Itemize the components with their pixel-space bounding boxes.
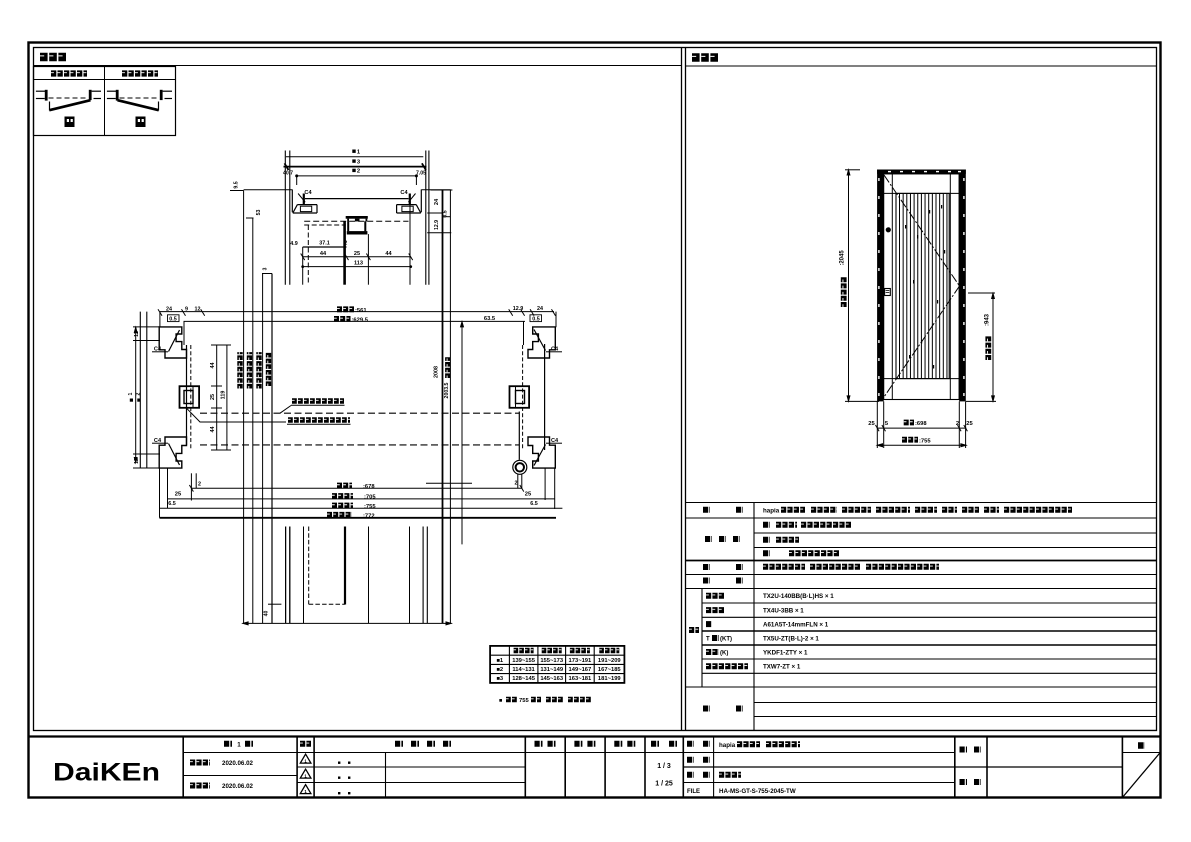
right jamb strike clip: [510, 386, 530, 408]
svg-text:TXW7-ZT × 1: TXW7-ZT × 1: [763, 664, 801, 671]
svg-text:181~199: 181~199: [598, 676, 622, 682]
left jamb strike clip: [180, 386, 200, 408]
hinge: [513, 460, 527, 474]
svg-text:DaiKEn: DaiKEn: [53, 758, 160, 785]
right wall lines of head section: [425, 151, 427, 285]
head frame right profile: [420, 190, 422, 213]
vertical dim 3: [262, 273, 272, 275]
elevation door frame right stile bar: [959, 170, 966, 402]
zumei label and sanmenzu: [687, 772, 694, 778]
wall lines left segment lower: [285, 527, 287, 624]
svg-text:40: 40: [264, 611, 270, 617]
svg-text:1 / 25: 1 / 25: [655, 781, 673, 788]
right header underline: [686, 65, 1157, 67]
svg-text:A61A5T-14mmFLN × 1: A61A5T-14mmFLN × 1: [763, 622, 829, 629]
svg-text:C4: C4: [551, 438, 559, 444]
left top hook hatch and C4: [169, 330, 180, 352]
rotated height labels: [237, 352, 242, 388]
svg-text:173~191: 173~191: [569, 658, 593, 664]
svg-text:114~131: 114~131: [512, 667, 535, 673]
revision rows lines: [297, 766, 525, 768]
chamfer leader C4 left: [298, 194, 305, 203]
row label chouban: [703, 578, 710, 584]
row label katashiki: [703, 507, 710, 513]
svg-text:2003.5: 2003.5: [444, 382, 450, 398]
no column header: [300, 741, 311, 747]
note todari zencho wo shimesu: [292, 398, 344, 404]
svg-text:2: 2: [344, 241, 347, 247]
sheet inner border: [34, 48, 1157, 731]
elevation door frame left stile bar: [877, 170, 884, 402]
elevation left dim okuchidaka 2045: [848, 170, 850, 402]
svg-text:44: 44: [210, 363, 216, 369]
svg-text:2: 2: [136, 392, 142, 395]
svg-text::943: :943: [984, 313, 990, 326]
dim line 2: [297, 175, 417, 177]
spec table column dividers: [753, 503, 755, 731]
extension stubs under dim lines: [159, 312, 161, 327]
title block top line: [29, 735, 1161, 737]
svg-text:24: 24: [537, 306, 543, 312]
hinge leader line: [426, 482, 472, 484]
left wall lines of head section: [284, 151, 286, 285]
elevation bottom extension lines: [876, 401, 878, 448]
svg-text:HA-MS-GT-S-755-2045-TW: HA-MS-GT-S-755-2045-TW: [719, 788, 796, 795]
door swing dash-dot diagonals: [884, 175, 960, 286]
right-hinged swing diagram: [36, 90, 47, 92]
dim 44 25 44 line: [303, 256, 411, 258]
shiage row1 content tobira panel: [763, 522, 770, 528]
page cell: [1138, 742, 1145, 749]
svg-text:113: 113: [354, 261, 363, 267]
daiken logo: [53, 758, 160, 785]
svg-text:(KT): (KT): [720, 636, 732, 642]
row label totte: [703, 564, 710, 570]
svg-text::755: :755: [919, 438, 931, 444]
door leaf dashed lines in plan: [200, 412, 519, 414]
hinban label: [687, 757, 694, 763]
elevation door leaf outline: [884, 174, 959, 400]
svg-text::2045: :2045: [840, 250, 846, 266]
hinban vertical label: [689, 627, 699, 633]
shukushaku header and values: [651, 741, 659, 747]
svg-text:■3: ■3: [496, 676, 504, 682]
left jamb inner face line: [186, 345, 188, 445]
door leaf stiles and rails: [891, 174, 893, 400]
bottom dim line wakugai 755: [877, 444, 966, 446]
extension arrow 63.5: [461, 322, 463, 544]
svg-text:■2: ■2: [496, 667, 503, 673]
vertical dim 9.5: [230, 190, 244, 192]
revision history sub divider: [385, 753, 387, 798]
shounin kenzu sakusei headers: [535, 741, 543, 747]
left bottom hook hatch and C4: [169, 444, 180, 466]
door knob: [886, 227, 891, 232]
right top hook hatch and C4: [534, 330, 546, 351]
floor section wall pair left: [285, 527, 287, 624]
svg-text:2020.06.02: 2020.06.02: [222, 760, 254, 767]
svg-text:C4: C4: [400, 190, 408, 196]
dim line wakuuchi 705: [168, 498, 555, 500]
svg-text:53: 53: [256, 210, 262, 216]
dim line tobira 678: [191, 487, 521, 489]
svg-text:63.5: 63.5: [484, 316, 496, 322]
svg-text::678: :678: [363, 484, 375, 490]
svg-text:7.05: 7.05: [416, 171, 426, 177]
page diagonal: [1123, 753, 1160, 797]
svg-text:155~173: 155~173: [540, 658, 564, 664]
svg-text:25: 25: [354, 251, 360, 257]
svg-text:25: 25: [175, 492, 182, 498]
sekou cell: [960, 779, 968, 785]
svg-text:12: 12: [134, 331, 140, 337]
projection line inner right frame: [409, 199, 411, 285]
row content totte: [763, 564, 805, 570]
svg-text:139~155: 139~155: [512, 658, 536, 664]
svg-text:25: 25: [210, 394, 216, 400]
svg-text:149~167: 149~167: [569, 667, 592, 673]
bottom overall dim line: [243, 622, 452, 624]
lock plate: [885, 289, 891, 296]
shiage row3 content waku olefin sheet: [763, 550, 770, 556]
svg-text:25: 25: [525, 492, 532, 498]
title block verticals: [182, 737, 184, 798]
svg-text:YKDF1-ZTY × 1: YKDF1-ZTY × 1: [763, 649, 808, 656]
svg-text:(K): (K): [720, 650, 728, 656]
wall thickness table: [490, 646, 624, 683]
door leaf dashed top edge: [304, 224, 346, 226]
shiage row2 content tobira kamachi: [763, 537, 770, 543]
right bottom hook hatch and C4: [534, 445, 546, 466]
svg-text:9.5: 9.5: [234, 181, 240, 188]
latch height dim 943: [968, 292, 995, 294]
svg-text::561: :561: [355, 308, 367, 314]
door top clearance dashed line: [304, 220, 408, 222]
svg-text:C4: C4: [154, 346, 162, 352]
hinge-side table: [34, 67, 176, 136]
svg-text:12.9: 12.9: [513, 306, 524, 312]
door stop mullion section: [346, 216, 368, 219]
svg-text:12.9: 12.9: [434, 220, 440, 230]
left jamb bottom hook profile: [159, 437, 186, 468]
frame bar white screw marks: [878, 178, 879, 181]
left jamb dim ticks: [133, 326, 160, 328]
svg-text:■: ■: [499, 698, 502, 704]
svg-text::755: :755: [364, 504, 376, 510]
head frame left profile: [291, 190, 293, 213]
svg-text:2020.06.02: 2020.06.02: [222, 783, 254, 790]
dim 4.9 37.1 2 line: [303, 246, 347, 248]
right jamb lower extension lines: [544, 468, 546, 500]
label hidari-tsurimoto L: [122, 70, 158, 76]
projection line: [271, 274, 273, 624]
svg-text:C4: C4: [304, 190, 312, 196]
svg-text:hapia: hapia: [763, 507, 780, 514]
svg-text:167~185: 167~185: [598, 667, 622, 673]
bikou label: [703, 706, 710, 712]
svg-text:FILE: FILE: [687, 789, 700, 795]
left jamb vertical dim 44 25 44: [216, 345, 218, 450]
svg-text:12: 12: [134, 458, 140, 464]
row label shiagege: [705, 536, 712, 542]
dim line wakuuchi 629.5: [184, 320, 526, 322]
svg-text:131~149: 131~149: [540, 667, 564, 673]
floor projection lines: [303, 527, 305, 624]
svg-text:128~145: 128~145: [512, 676, 536, 682]
svg-text:191~209: 191~209: [598, 658, 622, 664]
svg-text:25: 25: [966, 421, 973, 427]
vertical dim 53: [246, 217, 254, 219]
door leaf thick face line: [343, 221, 346, 284]
uchi mark right cell: [65, 117, 75, 128]
dim line tobukuro 561: [160, 311, 554, 313]
svg-text:119: 119: [221, 391, 227, 400]
dim line wakugai 755: [160, 507, 563, 509]
svg-text:44: 44: [320, 251, 327, 257]
right panel title shomenzu: [692, 53, 718, 62]
dim 113 line: [303, 266, 411, 268]
svg-text:24: 24: [434, 198, 440, 205]
spec table row lines: [686, 502, 1157, 504]
chamfer leader C4 right: [408, 194, 415, 203]
left panel title danmenzu: [40, 53, 66, 62]
seitei date row: [190, 760, 210, 766]
table headers: [514, 648, 534, 653]
svg-text:44: 44: [385, 251, 392, 257]
revision triangles: [300, 754, 311, 763]
svg-text:■1: ■1: [496, 658, 504, 664]
dim line kabe kaikou 772: [160, 517, 557, 519]
left header underline: [34, 65, 682, 67]
label migi-tsurimoto R: [51, 70, 87, 76]
svg-text:C4: C4: [551, 346, 559, 352]
left jamb doorstop dashed line: [190, 345, 192, 450]
right jamb top hook profile: [528, 327, 555, 358]
svg-text:40.7: 40.7: [283, 171, 293, 177]
note packing leader: [187, 408, 287, 422]
right side dim 24 0.5 12.9: [431, 189, 453, 191]
slats: [899, 193, 901, 378]
right jamb inner face line: [544, 344, 546, 450]
right jamb bottom hook profile: [528, 437, 555, 468]
door leaf dashed face line: [307, 225, 309, 285]
left-hinged swing diagram: [107, 90, 118, 92]
svg-text:3: 3: [263, 267, 269, 270]
left jamb top hook profile: [159, 327, 186, 358]
door edge dashed clearance line: [522, 345, 524, 450]
projection line right of mullion: [367, 234, 369, 285]
svg-text:44: 44: [210, 427, 216, 433]
note todari leader: [280, 406, 291, 414]
svg-text:755: 755: [519, 698, 529, 704]
svg-text::772: :772: [363, 513, 375, 519]
left jamb outer dim arrow line: [135, 327, 137, 463]
svg-text:4.9: 4.9: [290, 241, 298, 247]
svg-text:1: 1: [128, 392, 134, 395]
slat panel outline: [896, 193, 949, 378]
svg-text::705: :705: [364, 494, 376, 500]
hinban sub rows: [706, 593, 725, 599]
svg-text:1 / 3: 1 / 3: [657, 763, 671, 770]
door leaf dashed bottom: [309, 603, 345, 605]
svg-text:T: T: [706, 636, 710, 642]
svg-text:TX4U-3BB × 1: TX4U-3BB × 1: [763, 608, 804, 615]
head frame soffit line: [305, 198, 409, 200]
dai 1 han header: [224, 741, 232, 747]
revision dots: [338, 762, 340, 764]
dim line 3 thick: [284, 166, 427, 168]
svg-text:25: 25: [868, 421, 875, 427]
bottom dim line 25.5 698 2 25: [877, 427, 966, 429]
svg-text:TX2U-140BB(B·L)HS × 1: TX2U-140BB(B·L)HS × 1: [763, 593, 834, 600]
elevation door frame head bar: [877, 170, 966, 174]
top section: dim line 1: [286, 156, 423, 158]
svg-text:2008: 2008: [434, 366, 440, 378]
left jamb wall lines: [139, 312, 141, 468]
svg-text:hapia: hapia: [719, 742, 736, 749]
svg-text::629.5: :629.5: [352, 317, 369, 323]
slat tick marks: [905, 225, 906, 229]
kenmei cell: [960, 747, 968, 753]
svg-text:1: 1: [237, 742, 241, 749]
door leaf hinge-end edge: [518, 412, 520, 460]
kaitei date row: [190, 783, 210, 789]
svg-text:2: 2: [515, 481, 518, 487]
dim 40 bottom: [268, 603, 281, 605]
svg-text:TX5U-ZT(B·L)-2 × 1: TX5U-ZT(B·L)-2 × 1: [763, 635, 819, 642]
projection line left inner: [302, 247, 304, 285]
svg-text:2: 2: [198, 482, 201, 488]
note packing text: [288, 417, 350, 423]
svg-text::698: :698: [915, 421, 927, 427]
panel divider between section view and front view: [681, 48, 683, 731]
meishou label and content: [687, 741, 694, 747]
svg-text:C4: C4: [154, 438, 162, 444]
svg-text:163~181: 163~181: [569, 676, 593, 682]
uchi mark left cell: [136, 117, 146, 128]
right projection pair with rotated labels: [442, 190, 444, 623]
svg-text:2: 2: [357, 169, 360, 175]
left jamb lower extension lines: [159, 468, 161, 518]
name rows lines: [683, 752, 955, 754]
hinge extension lines: [517, 475, 519, 489]
svg-text:37.1: 37.1: [319, 241, 330, 247]
kaitei rireki header: [395, 741, 403, 747]
svg-text:145~163: 145~163: [540, 676, 564, 682]
svg-text:6.5: 6.5: [530, 501, 538, 507]
svg-text:2: 2: [956, 421, 959, 427]
svg-text:6.5: 6.5: [168, 501, 176, 507]
